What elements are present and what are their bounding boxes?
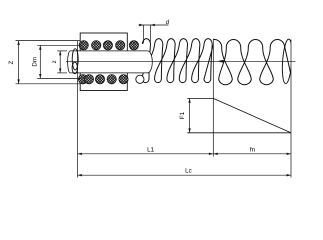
extended spring end coil [281,39,293,84]
svg-text:z: z [51,60,58,63]
dimension L1 line [78,153,214,155]
coil section circle bottom 3 [95,75,104,84]
rod body [69,51,153,73]
extended spring coils [207,39,293,85]
centerline [70,60,296,62]
extension line right [290,40,292,178]
dimension Z line [16,41,81,84]
svg-text:Z: Z [8,60,15,64]
triangle top line [187,97,213,99]
coil section circle top 4 [116,41,125,50]
dimension Lc line [78,174,292,176]
triangle hypotenuse [213,98,291,132]
svg-text:Lc: Lc [185,168,192,175]
coil section circle top 5 [129,41,138,50]
centerline over rod [66,60,153,62]
svg-text:Dm: Dm [31,57,38,67]
left end coil tip loop [72,62,77,73]
svg-text:L1: L1 [147,147,154,154]
dimension Dm line [37,45,81,78]
svg-text:fn: fn [250,146,256,153]
rod right end cap [148,51,153,73]
dimension d line [139,25,169,44]
left end coil ellipse [72,49,78,70]
force arrow on centerline [217,60,224,63]
triangle base [187,132,291,134]
compressed spring coils [142,39,213,83]
extension line middle [212,39,214,157]
housing block [80,33,127,91]
extension line left [77,41,79,178]
coil section circle top 3 [103,41,112,50]
svg-text:d: d [166,19,170,26]
dimension F1 line [189,98,191,132]
coil section circle bottom 2 [84,75,93,84]
dimension fn line [213,153,291,155]
coil section circle top 2 [92,41,101,50]
coil section circle bottom open [136,75,144,83]
svg-text:F1: F1 [179,111,186,119]
coil section circle top 1 [79,41,88,50]
coil section circle bottom 5 [119,75,128,84]
coil section circle bottom 1 [78,75,87,84]
dimension z line [57,51,67,73]
rod left end cap [68,51,71,73]
coil section circle bottom 4 [107,75,116,84]
